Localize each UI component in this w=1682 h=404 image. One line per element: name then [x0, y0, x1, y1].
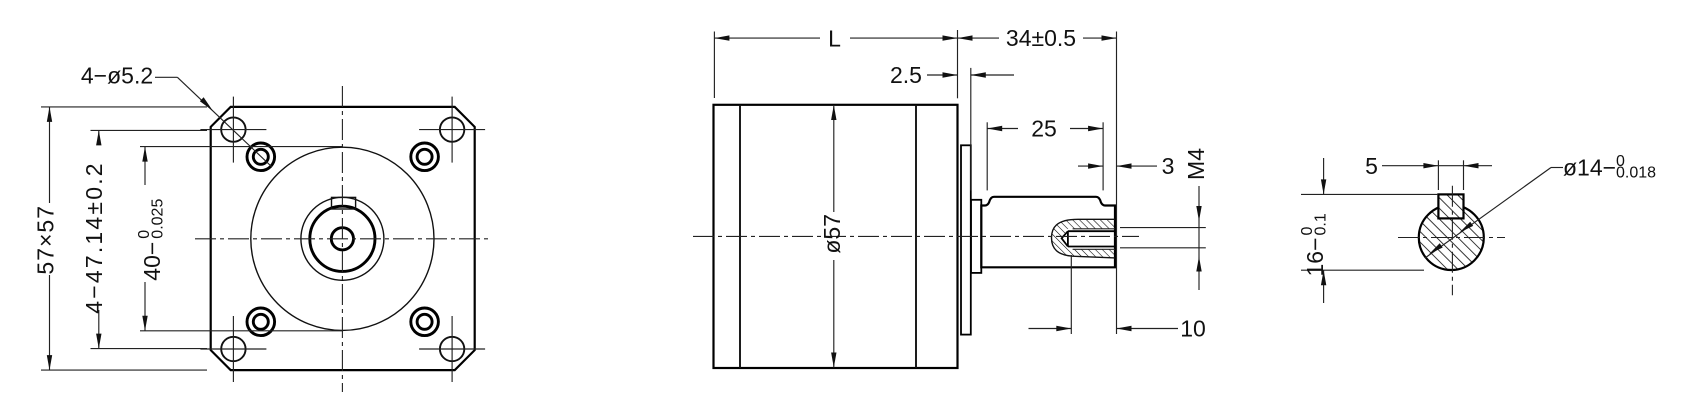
svg-text:57×57: 57×57: [33, 205, 59, 275]
svg-text:0.1: 0.1: [1313, 213, 1330, 235]
svg-text:M4: M4: [1183, 148, 1209, 180]
svg-text:0.018: 0.018: [1616, 165, 1656, 182]
svg-text:2.5: 2.5: [890, 62, 922, 88]
svg-text:ø57: ø57: [819, 214, 845, 254]
svg-text:25: 25: [1031, 116, 1057, 142]
svg-text:40−: 40−: [139, 242, 165, 281]
svg-text:16−: 16−: [1302, 237, 1328, 276]
svg-text:34±0.5: 34±0.5: [1006, 25, 1076, 51]
svg-text:10: 10: [1180, 316, 1206, 342]
svg-text:5: 5: [1365, 153, 1378, 179]
svg-text:ø14−: ø14−: [1563, 155, 1616, 181]
svg-text:4−47.14±0.2: 4−47.14±0.2: [81, 161, 107, 314]
svg-text:0.025: 0.025: [150, 199, 167, 239]
svg-text:L: L: [828, 26, 841, 52]
svg-text:3: 3: [1162, 153, 1175, 179]
svg-text:4−ø5.2: 4−ø5.2: [81, 63, 153, 89]
